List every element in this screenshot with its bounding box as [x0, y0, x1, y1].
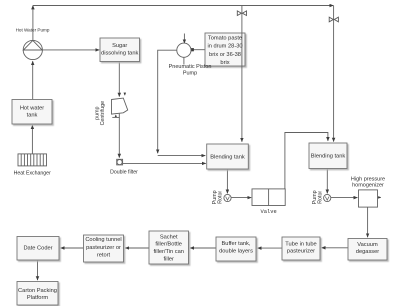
svg-text:Pump: Pump [212, 190, 218, 204]
svg-text:Valve: Valve [261, 209, 277, 215]
svg-text:Hot water: Hot water [20, 106, 44, 112]
svg-text:filler/Bottle: filler/Bottle [155, 242, 182, 248]
svg-text:Cooling tunnel: Cooling tunnel [85, 237, 121, 243]
svg-text:homogenizer: homogenizer [352, 182, 384, 188]
svg-text:Sugar: Sugar [112, 43, 127, 49]
svg-text:brix: brix [220, 60, 229, 66]
svg-text:Tube in tube: Tube in tube [285, 242, 316, 248]
svg-text:pasteurizer: pasteurizer [287, 249, 315, 255]
svg-text:Pneumatic Piston: Pneumatic Piston [169, 64, 212, 70]
svg-text:Vacuum: Vacuum [357, 242, 378, 248]
svg-text:pump: pump [95, 107, 101, 120]
svg-text:Double filter: Double filter [110, 170, 138, 176]
svg-text:filler/Tin can: filler/Tin can [153, 249, 183, 255]
svg-text:Hot Water Pump: Hot Water Pump [16, 28, 50, 33]
svg-text:retort: retort [97, 252, 111, 258]
svg-text:dissolving tank: dissolving tank [101, 50, 138, 56]
svg-text:Pump: Pump [312, 190, 318, 204]
svg-text:Blending tank: Blending tank [210, 154, 245, 160]
svg-text:Tomato paste: Tomato paste [208, 35, 242, 41]
svg-text:Buffer tank,: Buffer tank, [222, 241, 251, 247]
svg-text:filler: filler [163, 256, 174, 262]
svg-text:Rotor: Rotor [317, 191, 323, 204]
svg-text:Pump: Pump [183, 70, 197, 76]
svg-text:degasser: degasser [356, 249, 380, 255]
svg-text:in drum 28-30: in drum 28-30 [207, 44, 242, 50]
svg-text:tank: tank [27, 113, 38, 119]
svg-text:Blending tank: Blending tank [311, 154, 346, 160]
svg-text:Heat Exchanger: Heat Exchanger [14, 171, 51, 177]
svg-text:Rotor: Rotor [217, 191, 223, 204]
svg-text:Date Coder: Date Coder [23, 246, 52, 252]
svg-text:pasteurizer or: pasteurizer or [86, 245, 121, 251]
svg-text:Centrifuge: Centrifuge [100, 101, 106, 125]
svg-text:brix or 36-38: brix or 36-38 [209, 52, 241, 58]
svg-text:Carton Packing: Carton Packing [18, 288, 57, 294]
svg-text:Sachet: Sachet [160, 234, 178, 240]
svg-text:Platform: Platform [27, 295, 48, 301]
svg-text:double layers: double layers [219, 248, 253, 254]
